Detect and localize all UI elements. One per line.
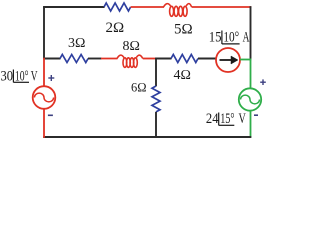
current source arrow — [220, 56, 239, 64]
label 24 angle 15 V — [206, 111, 246, 127]
label 30 angle 10 V — [1, 69, 38, 85]
wire: row2 black segment from left vertical to 3ohm — [43, 58, 60, 60]
voltage source V2 circle (24V) — [239, 88, 261, 110]
wire: row2 black segment from junction to 4ohm — [155, 58, 171, 60]
plus sign of V2 — [260, 79, 266, 85]
sine symbol of V1 — [34, 93, 53, 102]
wire: row2 red lead from 8ohm to center junction — [143, 58, 157, 60]
wire: 6ohm branch vertical lower black — [155, 112, 157, 138]
current source I1 circle — [216, 48, 240, 72]
svg-text:3Ω: 3Ω — [68, 36, 85, 51]
wire: left vertical red upper (row2 node to source) — [43, 58, 45, 87]
svg-text:30: 30 — [1, 69, 14, 85]
wire: right vertical green upper segment — [250, 59, 252, 89]
svg-text:15°: 15° — [220, 111, 234, 127]
resistor 2ohm zigzag — [104, 3, 131, 11]
svg-text:4Ω: 4Ω — [174, 68, 191, 83]
svg-text:24: 24 — [206, 111, 219, 127]
resistor 4ohm zigzag — [171, 55, 198, 63]
svg-text:6Ω: 6Ω — [131, 80, 147, 94]
wire: bottom horizontal black — [43, 136, 251, 138]
wire: 6ohm branch vertical upper black — [155, 58, 157, 87]
wire: right vertical green lower segment — [250, 111, 252, 138]
wire: right vertical black segment (top corner down to current-source node) — [250, 6, 252, 58]
svg-text:10°: 10° — [15, 69, 29, 85]
wire: top horizontal red segment (between 2ohm and 5ohm) — [131, 6, 164, 8]
inductor 5ohm coil — [164, 4, 192, 17]
wire: top horizontal red right segment — [192, 6, 252, 8]
resistor 3ohm zigzag — [60, 55, 88, 63]
wire: row2 black lead from 4ohm to current source — [198, 58, 217, 60]
resistor 6ohm vertical zigzag — [152, 86, 160, 112]
svg-text:10°: 10° — [223, 30, 239, 46]
wire: row2 black lead after 3ohm — [88, 58, 102, 60]
plus sign of V1 — [48, 75, 54, 81]
wire: top horizontal black segment — [43, 6, 104, 8]
wire: left vertical red lower (source to bottom corner) — [43, 109, 45, 138]
minus sign of V2 — [254, 114, 258, 116]
inductor 8ohm coil — [117, 55, 143, 67]
svg-text:V: V — [239, 111, 246, 127]
minus sign of V1 — [48, 114, 53, 116]
svg-text:2Ω: 2Ω — [106, 20, 125, 36]
sine symbol of V2 — [241, 95, 260, 104]
label 15 angle 10 A — [209, 30, 250, 46]
wire: row2 red lead into 8ohm coil — [101, 58, 118, 60]
wire: green stub from current source to right vertical — [240, 59, 251, 61]
wire: left vertical black (top loop left side) — [43, 6, 45, 58]
svg-text:V: V — [31, 69, 38, 85]
svg-text:5Ω: 5Ω — [174, 22, 193, 38]
voltage source V1 circle (30V) — [33, 86, 56, 109]
svg-text:8Ω: 8Ω — [123, 39, 140, 54]
svg-text:15: 15 — [209, 30, 222, 46]
svg-text:A: A — [243, 30, 250, 46]
